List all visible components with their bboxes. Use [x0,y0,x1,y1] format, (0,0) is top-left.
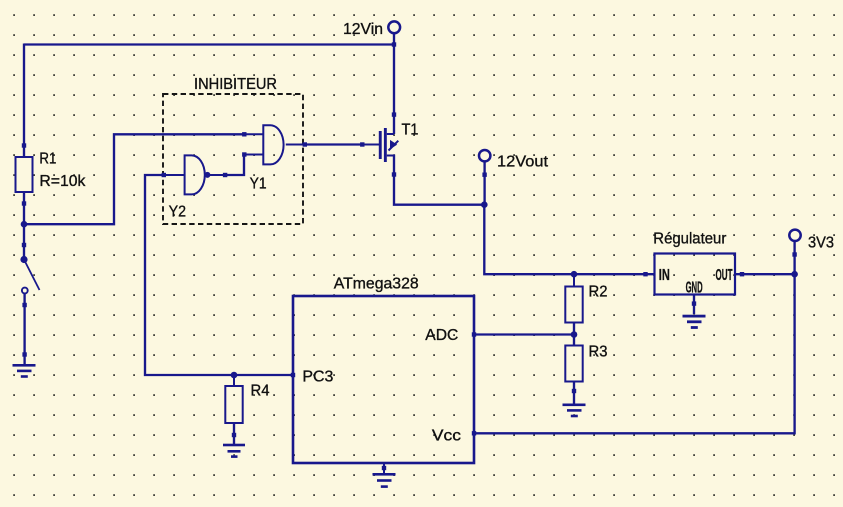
wire R4 bottom to ground [233,423,235,444]
pin Vcc [432,428,476,445]
svg-text:Y1: Y1 [250,175,267,192]
wire 12Vin to T1 drain [393,34,395,135]
svg-text:PC3: PC3 [302,369,333,386]
pin GND [686,280,703,306]
terminal 3V3 [789,230,800,257]
wire ADC to divider node [474,333,574,335]
pin IN [643,267,670,284]
terminal 12Vin [388,21,400,46]
ground for R4 [223,444,245,458]
node A junction at R1 bottom [21,221,28,228]
ground for switch branch [13,352,36,378]
svg-text:ATmega328: ATmega328 [334,275,419,292]
svg-text:12Vout: 12Vout [497,154,549,171]
pin OUT [716,267,745,284]
svg-text:IN: IN [659,267,670,284]
transistor T1 (n-mosfet) [360,112,398,176]
svg-text:R1: R1 [39,151,56,168]
wire regulator OUT to 3V3 rail [735,273,795,275]
wire T1 source to node B [394,155,485,205]
wire R3 bottom to ground [573,381,575,404]
svg-text:R3: R3 [589,344,608,361]
switch SW1 [20,243,39,307]
resistor R2 [565,274,582,334]
node B junction below 12Vout [481,201,488,208]
wire node B to regulator IN [484,205,654,275]
svg-text:INHIBITEUR: INHIBITEUR [194,76,277,93]
and-gate Y1 [242,125,307,164]
wire regulator GND stub [693,294,695,314]
wire R2 link to R3 [573,322,575,346]
wire switch bottom to ground [23,294,25,364]
pin PC3 [291,369,334,386]
ATmega328 box U2 [293,296,474,463]
svg-text:T1: T1 [402,121,419,138]
ground for regulator [683,315,706,329]
node 3V3 rail junction [791,271,798,278]
svg-text:Vcc: Vcc [432,428,461,445]
svg-text:R=10k: R=10k [39,173,86,190]
regulator U1 box [655,254,736,295]
ground for ATmega328 [373,463,396,488]
svg-text:R2: R2 [589,284,608,301]
svg-text:Y2: Y2 [169,204,186,221]
node ADC junction between R2 and R3 [571,331,578,338]
ground for R3 [563,404,586,418]
wire top rail from R1 top to 12Vin node [24,43,394,45]
resistor R4 [225,375,242,437]
svg-text:OUT: OUT [716,267,733,284]
wire left vertical from rail to R1 [23,44,25,158]
node PC3 junction at R4 top [231,372,238,379]
wire Y2 input down to PC3 [145,175,293,375]
wire R1 bottom to switch [23,192,25,259]
wire Y2 output to Y1 bottom input [224,154,244,176]
resistor R3 [565,346,582,394]
svg-text:GND: GND [686,280,703,297]
terminal 12Vout [479,150,490,177]
pin ADC [425,327,476,344]
and-gate Y2 with output bubble [162,155,228,194]
resistor R1 [16,143,33,205]
svg-text:Régulateur: Régulateur [653,230,727,247]
wire node A to Y1 top input [24,134,245,224]
svg-text:12Vin: 12Vin [343,21,383,38]
svg-text:ADC: ADC [425,327,458,344]
node divider-in junction [571,271,578,278]
wire 3V3 vertical rail [474,240,795,433]
svg-text:R4: R4 [251,383,270,400]
wire Y1 output to T1 gate [304,143,363,145]
svg-text:3V3: 3V3 [808,234,834,251]
wire 12Vout terminal drop [483,161,485,204]
INHIBITEUR dashed box [163,94,303,224]
